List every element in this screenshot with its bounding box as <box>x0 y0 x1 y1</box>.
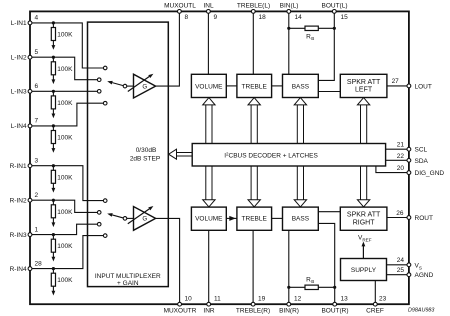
pin 24 VS <box>407 263 411 267</box>
bus arrow I2C to BASS L <box>296 105 298 144</box>
svg-text:LOUT: LOUT <box>415 83 432 90</box>
junction L-IN3/resistor <box>52 90 55 93</box>
pin 18 TREBLE(L) <box>251 10 255 14</box>
mux selector switch L (pole to contact 2) <box>112 83 123 86</box>
svg-text:VOLUME: VOLUME <box>195 216 223 223</box>
wire TREBLE(L) pin to treble box <box>252 11 254 74</box>
junction R-IN3/resistor <box>52 233 55 236</box>
input multiplexer + gain box <box>88 22 169 287</box>
svg-text:0/30dB: 0/30dB <box>136 147 157 154</box>
svg-text:INL: INL <box>203 2 214 9</box>
svg-text:2dB STEP: 2dB STEP <box>130 156 160 163</box>
junction L-IN1/resistor <box>52 21 55 24</box>
wire I2C to SDA <box>386 159 409 161</box>
mux R contact 1 <box>103 199 107 203</box>
junction L-IN2/resistor <box>52 56 55 59</box>
svg-text:100K: 100K <box>57 66 73 73</box>
svg-text:100K: 100K <box>57 100 73 107</box>
pin 14 BIN(L) <box>287 10 291 14</box>
wire VOLUME L to TREBLE L <box>226 85 237 87</box>
block BASS (right) <box>283 207 319 230</box>
IC chip outline <box>30 11 409 304</box>
bus arrow I2C to SPKR ATT RIGHT <box>360 166 362 200</box>
svg-text:TREBLE: TREBLE <box>242 216 268 223</box>
svg-text:28: 28 <box>35 260 43 267</box>
svg-text:4: 4 <box>35 15 39 22</box>
svg-text:ROUT: ROUT <box>415 215 433 222</box>
wire INR to VOLUME R <box>208 230 210 304</box>
wire SUPPLY to AGND <box>387 274 409 276</box>
arrow SUPPLY to VREF <box>362 246 364 259</box>
svg-text:13: 13 <box>341 296 349 303</box>
svg-text:7: 7 <box>35 118 39 125</box>
block VOLUME (right) <box>191 207 226 230</box>
svg-text:D98AU983: D98AU983 <box>408 308 434 314</box>
resistor 100K (R-IN2) with ground arrow <box>52 200 54 205</box>
svg-text:R-IN3: R-IN3 <box>10 232 27 239</box>
svg-text:BOUT(L): BOUT(L) <box>322 2 348 9</box>
svg-text:BIN(L): BIN(L) <box>280 2 299 9</box>
wire L-IN4 to mux contact <box>30 103 105 126</box>
svg-text:LEFT: LEFT <box>355 87 373 94</box>
pin 4 L-IN1 <box>28 21 32 25</box>
svg-text:CREF: CREF <box>366 308 384 315</box>
pin 12 BIN(R) <box>287 302 291 306</box>
bus arrow I2C to TREBLE L <box>250 105 252 144</box>
svg-text:R-IN4: R-IN4 <box>10 266 27 273</box>
svg-text:TREBLE(R): TREBLE(R) <box>236 308 270 315</box>
wire BIN(R) pin to bass box <box>288 230 290 304</box>
junction BIN(L)/RB <box>287 27 290 30</box>
mux R contact 4 <box>103 234 107 238</box>
wire R-IN2 to mux contact <box>30 200 99 212</box>
svg-text:R-IN2: R-IN2 <box>10 198 27 205</box>
svg-text:+ GAIN: + GAIN <box>117 280 139 287</box>
mux L contact 2 <box>97 78 101 82</box>
svg-text:27: 27 <box>392 78 400 85</box>
svg-text:TREBLE(L): TREBLE(L) <box>237 2 270 9</box>
mux L contact 1 <box>103 66 107 70</box>
pin 23 CREF <box>373 302 377 306</box>
wire L-IN2 to mux contact <box>30 57 99 79</box>
svg-text:R-IN1: R-IN1 <box>10 163 27 170</box>
svg-text:100K: 100K <box>57 174 73 181</box>
svg-text:L-IN3: L-IN3 <box>11 89 27 96</box>
pin 9 INL <box>207 10 211 14</box>
svg-text:SPKR ATT: SPKR ATT <box>347 79 381 86</box>
pin 15 BOUT(L) <box>332 10 336 14</box>
svg-text:B: B <box>311 36 314 41</box>
wire amp L output to MUXOUTL <box>156 11 180 86</box>
wire TREBLE(R) pin to treble box <box>252 230 254 304</box>
wire BIN(L) pin to bass box <box>288 11 290 74</box>
block BASS (left) <box>283 74 319 97</box>
wire BASS L to SPKR ATT LEFT <box>318 91 340 93</box>
resistor 100K (L-IN4) with ground arrow <box>52 126 54 131</box>
svg-text:100K: 100K <box>57 209 73 216</box>
resistor 100K (R-IN1) with ground arrow <box>52 166 54 171</box>
block VOLUME (left) <box>191 74 226 97</box>
svg-text:8: 8 <box>185 14 189 21</box>
pin 26 ROUT <box>407 216 411 220</box>
svg-text:B: B <box>311 279 314 284</box>
pin 21 SCL <box>407 147 411 151</box>
mux selector switch R (pole to contact 2) <box>112 215 123 218</box>
block TREBLE (right) <box>237 207 272 230</box>
resistor 100K (R-IN3) with ground arrow <box>52 235 54 240</box>
svg-text:9: 9 <box>214 14 218 21</box>
junction BIN(R)/RB <box>287 286 290 289</box>
svg-text:12: 12 <box>294 296 302 303</box>
pin 19 TREBLE(R) <box>251 302 255 306</box>
junction R-IN4/resistor <box>52 267 55 270</box>
svg-text:100K: 100K <box>57 32 73 39</box>
pin 3 R-IN1 <box>28 164 32 168</box>
wire INL to VOLUME L <box>207 11 209 74</box>
svg-text:SDA: SDA <box>415 158 429 165</box>
wire R-IN4 to mux contact <box>30 236 105 269</box>
svg-text:20: 20 <box>397 165 405 172</box>
wire selector R to amp <box>127 217 134 219</box>
wire BASS R to SPKR ATT RIGHT <box>318 211 340 213</box>
pin 11 INR <box>207 302 211 306</box>
svg-text:100K: 100K <box>57 277 73 284</box>
svg-text:24: 24 <box>397 257 405 264</box>
wire I2C to SCL <box>386 148 409 150</box>
svg-text:L-IN1: L-IN1 <box>11 20 27 27</box>
svg-text:L-IN2: L-IN2 <box>11 55 27 62</box>
svg-text:2: 2 <box>35 192 39 199</box>
resistor 100K (L-IN2) with ground arrow <box>52 57 54 62</box>
junction BOUT(R)/RB <box>333 286 336 289</box>
svg-text:BOUT(R): BOUT(R) <box>321 308 348 315</box>
svg-text:DIG_GND: DIG_GND <box>415 170 445 177</box>
svg-text:10: 10 <box>185 296 193 303</box>
svg-text:INR: INR <box>203 308 215 315</box>
wire BOUT(R) pin to bass box output <box>318 223 335 304</box>
svg-text:26: 26 <box>396 210 404 217</box>
pin 20 DIG_GND <box>407 171 411 175</box>
mux R contact 3 <box>97 222 101 226</box>
op-amp G left (variable gain) <box>134 74 156 98</box>
block I2CBUS DECODER + LATCHES <box>192 144 385 167</box>
bus arrow I2C to TREBLE R <box>250 166 252 200</box>
wire SPKR ATT LEFT to LOUT <box>387 85 409 87</box>
svg-text:SCL: SCL <box>415 147 428 154</box>
junction R-IN1/resistor <box>52 164 55 167</box>
svg-text:23: 23 <box>379 296 387 303</box>
svg-text:100K: 100K <box>57 135 73 142</box>
wire amp R output to MUXOUTR <box>156 218 180 304</box>
pin 2 R-IN2 <box>28 198 32 202</box>
mux L contact 3 <box>97 90 101 94</box>
svg-text:SPKR ATT: SPKR ATT <box>347 211 381 218</box>
pin 6 L-IN3 <box>28 89 32 93</box>
wire R-IN1 to mux contact <box>30 166 105 201</box>
svg-text:AGND: AGND <box>415 272 434 279</box>
svg-text:I2CBUS DECODER + LATCHES: I2CBUS DECODER + LATCHES <box>224 151 318 160</box>
resistor RB (left channel) <box>289 27 305 29</box>
mux R contact 2 <box>97 211 101 215</box>
pin 28 R-IN4 <box>28 267 32 271</box>
svg-text:BIN(R): BIN(R) <box>279 308 299 315</box>
pin 8 MUXOUTL <box>178 10 182 14</box>
bus arrow I2C to BASS R <box>296 166 298 200</box>
bus arrow I2C to input multiplexer <box>177 152 193 154</box>
svg-text:6: 6 <box>35 83 39 90</box>
wire TREBLE L to BASS L <box>272 85 283 87</box>
svg-text:25: 25 <box>397 267 405 274</box>
svg-text:1: 1 <box>35 226 39 233</box>
svg-text:5: 5 <box>35 49 39 56</box>
svg-text:L-IN4: L-IN4 <box>11 123 27 130</box>
svg-text:VOLUME: VOLUME <box>195 83 223 90</box>
block SUPPLY <box>341 259 387 281</box>
op-amp G right (variable gain) <box>134 207 156 231</box>
pin 25 AGND <box>407 273 411 277</box>
wire SUPPLY to VS <box>387 264 409 266</box>
svg-text:RIGHT: RIGHT <box>353 219 376 226</box>
wire BOUT(L) pin to bass box output <box>318 11 334 80</box>
resistor 100K (R-IN4) with ground arrow <box>52 269 54 274</box>
block TREBLE (left) <box>237 74 272 97</box>
pin 13 BOUT(R) <box>333 302 337 306</box>
pin 7 L-IN4 <box>28 124 32 128</box>
svg-text:100K: 100K <box>57 243 73 250</box>
svg-text:MUXOUTR: MUXOUTR <box>164 308 197 315</box>
svg-text:21: 21 <box>397 142 405 149</box>
svg-text:BASS: BASS <box>292 83 310 90</box>
svg-text:14: 14 <box>295 14 303 21</box>
svg-text:3: 3 <box>35 158 39 165</box>
resistor 100K (L-IN3) with ground arrow <box>52 91 54 96</box>
resistor RB (right channel) <box>289 286 305 288</box>
wire L-IN3 to mux contact <box>30 90 99 92</box>
svg-text:22: 22 <box>397 153 405 160</box>
svg-text:BASS: BASS <box>292 216 310 223</box>
wire SUPPLY to CREF <box>374 281 376 305</box>
pin 1 R-IN3 <box>28 233 32 237</box>
resistor 100K (L-IN1) with ground arrow <box>52 23 54 28</box>
junction BOUT(L)/RB <box>333 27 336 30</box>
svg-text:TREBLE: TREBLE <box>242 83 268 90</box>
bus arrow I2C to SPKR ATT LEFT <box>360 105 362 144</box>
pin 5 L-IN2 <box>28 55 32 59</box>
svg-text:15: 15 <box>341 14 349 21</box>
wire SPKR ATT RIGHT to ROUT <box>387 217 409 219</box>
svg-text:G: G <box>142 83 147 90</box>
junction L-IN4/resistor <box>52 124 55 127</box>
pin 27 LOUT <box>407 84 411 88</box>
svg-text:11: 11 <box>214 296 221 303</box>
wire selector L to amp <box>127 85 134 87</box>
wire L-IN1 to mux contact <box>30 23 105 68</box>
bus arrow I2C to VOLUME L <box>205 105 207 144</box>
block SPKR ATT LEFT <box>340 74 387 97</box>
pin 10 MUXOUTR <box>178 302 182 306</box>
svg-text:MUXOUTL: MUXOUTL <box>164 2 196 9</box>
svg-text:19: 19 <box>258 296 266 303</box>
wire VOLUME R to TREBLE R with arrow <box>226 217 237 219</box>
block SPKR ATT RIGHT <box>340 207 387 230</box>
wire I2C to DIG_GND <box>376 166 409 173</box>
svg-text:G: G <box>142 216 147 223</box>
svg-text:SUPPLY: SUPPLY <box>351 267 377 274</box>
junction R-IN2/resistor <box>52 199 55 202</box>
pin 22 SDA <box>407 158 411 162</box>
wire TREBLE R to BASS R <box>272 217 283 219</box>
wire R-IN3 to mux contact <box>30 224 99 234</box>
bus arrow I2C to VOLUME R <box>205 166 207 200</box>
svg-text:18: 18 <box>259 14 267 21</box>
mux L contact 4 <box>103 101 107 105</box>
